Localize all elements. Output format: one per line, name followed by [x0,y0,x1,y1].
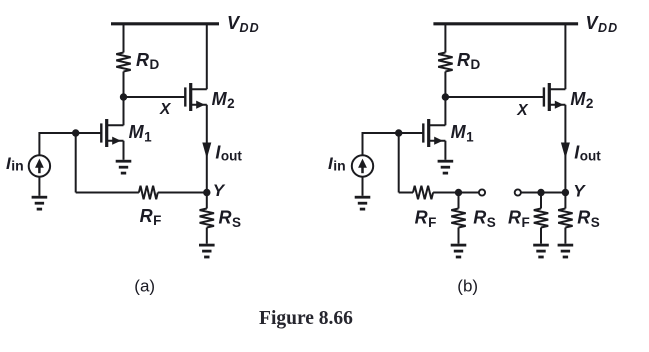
resistor RS (a) [200,209,214,228]
wire RF to left terminal (b) [433,192,479,194]
wire dot to RS left (b) [458,193,460,209]
VDD rail (a) [111,22,219,25]
transistor M2 (a) [185,83,207,111]
junction dot RF right (b) [537,189,544,196]
gate wire Iin to M1 (b) [363,133,424,155]
bottom wire to RF (b) [399,192,413,194]
wire Y to RS right (b) [564,193,566,209]
ground RS left (b) [451,245,467,257]
current source Iin (a) [29,155,50,176]
svg-text:Iin: Iin [328,154,346,174]
open terminal left (b) [479,189,485,195]
svg-text:M1: M1 [129,122,153,144]
svg-text:Iin: Iin [6,154,24,174]
svg-text:VDD: VDD [586,13,619,35]
svg-text:RF: RF [508,208,530,230]
svg-text:RF: RF [140,206,162,228]
resistor RF right (b) [534,209,548,228]
node Y dot (b) [562,189,569,196]
wire rail to RD (a) [123,24,125,53]
wire M1 drain up to node X (a) [123,97,125,125]
resistor RS left (b) [451,209,465,228]
node X junction dot (b) [442,93,449,100]
wire M1 source down (a) [123,141,125,160]
wire M1 drain up to node X (b) [444,97,446,125]
svg-text:RS: RS [219,208,242,230]
svg-text:X: X [159,101,172,118]
wire M2 drain to rail (b) [564,24,566,90]
input junction dot (b) [395,129,402,136]
ground RS (a) [199,245,215,257]
svg-text:M2: M2 [212,89,235,111]
resistor RD (b) [438,53,452,72]
resistor RS right (b) [558,209,572,228]
ground M1 (b) [438,161,454,173]
svg-text:RF: RF [415,208,437,230]
feedback down-wire (a) [75,133,77,193]
svg-text:(b): (b) [457,276,478,295]
ground RF right (b) [533,245,549,257]
bottom wire to RF (a) [76,192,139,194]
svg-text:M2: M2 [570,89,593,111]
input junction dot (a) [72,129,79,136]
svg-text:X: X [516,102,529,119]
wire RF right to ground (b) [540,228,542,244]
svg-text:RD: RD [457,50,481,72]
wire RF to Y (a) [158,192,207,194]
resistor RD (a) [116,53,130,72]
gate wire Iin to M1 (a) [39,133,101,155]
wire RS to ground (a) [206,228,208,244]
wire RD to node X (b) [444,72,446,98]
junction dot RF/RS (b) [455,189,462,196]
node Y dot (a) [203,189,210,196]
open terminal right (b) [515,189,521,195]
ground Iin (b) [355,197,371,209]
wire Y to RS (a) [206,193,208,209]
wire terminal to Y (b) [521,192,566,194]
resistor RF (a) [139,186,158,200]
svg-text:VDD: VDD [227,13,260,35]
Iout arrow (b) [561,143,570,159]
wire M1 source down (b) [444,141,446,160]
svg-text:M1: M1 [451,122,475,144]
wire node X to M2 gate (b) [445,96,544,98]
svg-text:Y: Y [213,181,226,200]
current source Iin (b) [352,155,373,176]
wire node X to M2 gate (a) [124,96,186,98]
node X junction dot (a) [120,93,127,100]
wire RS right to ground (b) [564,228,566,244]
ground M1 (a) [116,161,132,173]
svg-text:RS: RS [577,208,600,230]
wire Iin to ground (a) [38,177,40,196]
wire M2 source to Y (a) [206,105,208,193]
sense down-wire (b) [398,133,400,193]
svg-text:Iout: Iout [215,143,242,164]
wire RD to node X (a) [123,72,125,98]
wire Iin to ground (b) [362,177,364,196]
svg-text:Figure 8.66: Figure 8.66 [259,308,353,329]
transistor M1 (b) [423,119,445,147]
ground Iin (a) [32,197,48,209]
wire rail to RD (b) [444,24,446,53]
svg-text:RS: RS [473,208,496,230]
svg-text:Iout: Iout [574,143,601,164]
svg-text:Y: Y [573,181,586,200]
wire M2 source to Y (b) [564,105,566,193]
resistor RF horizontal (b) [413,186,433,200]
transistor M1 (a) [101,119,123,147]
transistor M2 (b) [544,83,566,111]
Iout arrow (a) [202,143,211,159]
ground RS right (b) [558,245,574,257]
wire RS left to ground (b) [458,228,460,244]
svg-text:(a): (a) [134,276,155,295]
wire M2 drain to rail (a) [206,24,208,90]
svg-text:RD: RD [136,50,160,72]
wire to RF right (b) [540,193,542,209]
VDD rail (b) [433,22,578,25]
